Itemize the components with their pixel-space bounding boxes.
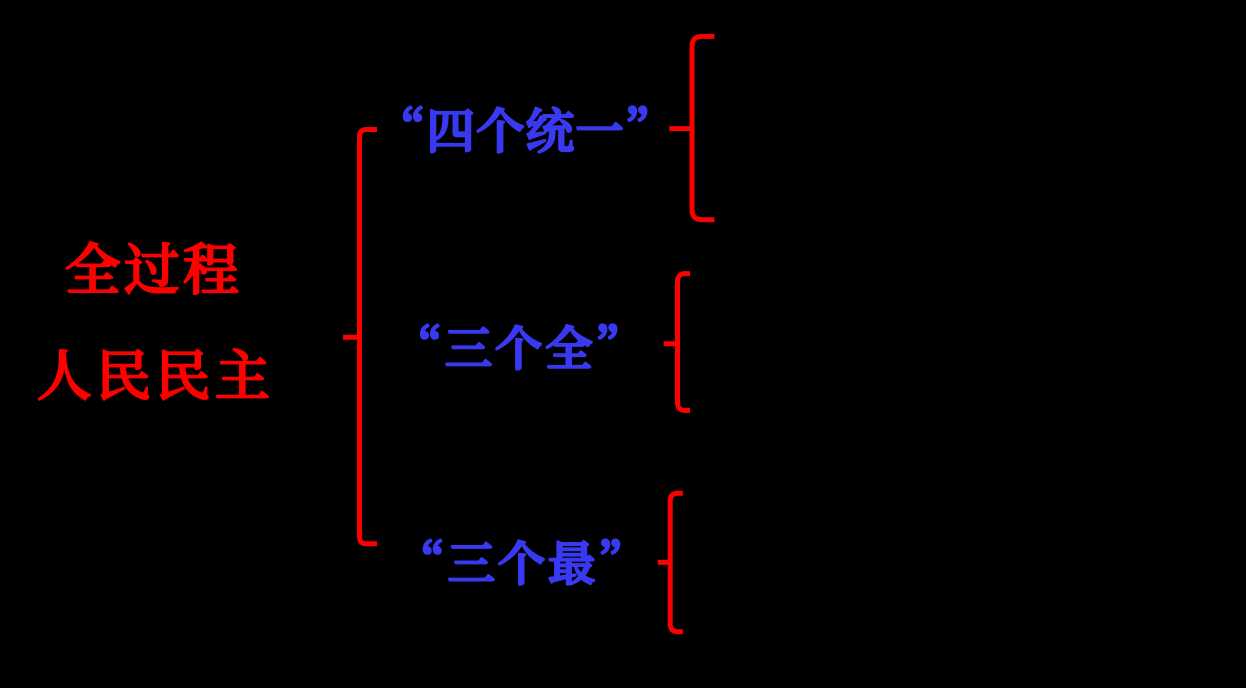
small red brace 2 right of 三个全 [664, 274, 690, 411]
red title line 2: 人民民主 [39, 349, 268, 400]
large red brace grouping the three blue labels [343, 130, 377, 544]
red title line 1: 全过程 [66, 242, 237, 294]
blue label 1: “四个统一” [404, 107, 646, 153]
blue label 2: “三个全” [421, 325, 616, 370]
small red brace 1 right of 四个统一 [669, 36, 714, 219]
small red brace 3 right of 三个最 [658, 493, 683, 632]
blue label 3: “三个最” [424, 540, 619, 585]
